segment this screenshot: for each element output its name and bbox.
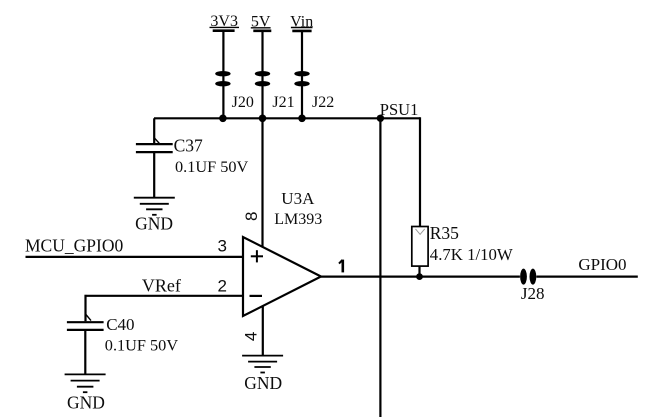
svg-text:4: 4 [241,332,260,341]
svg-text:MCU_GPIO0: MCU_GPIO0 [25,236,123,256]
svg-text:5V: 5V [251,13,271,30]
svg-text:C37: C37 [174,135,203,155]
svg-text:4.7K 1/10W: 4.7K 1/10W [430,245,513,264]
svg-text:VRef: VRef [142,276,181,296]
svg-text:PSU1: PSU1 [380,100,419,119]
svg-text:3: 3 [218,236,227,255]
svg-text:3V3: 3V3 [210,13,238,30]
svg-text:LM393: LM393 [274,211,322,228]
svg-text:GPIO0: GPIO0 [578,255,626,274]
svg-text:J22: J22 [312,94,334,111]
svg-text:J21: J21 [272,94,294,111]
svg-text:8: 8 [242,211,261,220]
svg-text:J20: J20 [232,94,254,111]
svg-text:Vin: Vin [290,14,313,31]
svg-text:GND: GND [135,214,173,234]
svg-text:0.1UF 50V: 0.1UF 50V [175,157,249,176]
svg-text:GND: GND [244,373,282,393]
svg-text:J28: J28 [521,284,545,303]
svg-text:U3A: U3A [281,189,315,208]
svg-text:2: 2 [218,276,227,295]
svg-text:GND: GND [67,393,105,413]
svg-text:0.1UF 50V: 0.1UF 50V [105,335,179,354]
svg-text:C40: C40 [106,315,134,334]
svg-text:R35: R35 [430,223,459,243]
